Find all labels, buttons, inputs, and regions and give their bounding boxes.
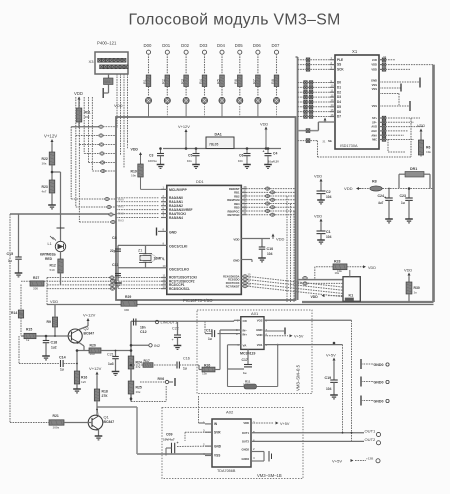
svg-text:D02: D02 [181,43,189,48]
svg-text:P400–121: P400–121 [97,41,117,46]
svg-text:VO2: VO2 [257,319,263,323]
svg-text:D04: D04 [217,43,225,48]
svg-text:IN2: IN2 [154,344,160,348]
svg-text:+: + [263,150,265,154]
svg-text:C23: C23 [400,194,407,198]
svg-text:R8: R8 [372,180,377,184]
svg-text:14: 14 [163,285,167,289]
svg-text:GND4: GND4 [242,457,250,461]
svg-text:DA1: DA1 [215,133,222,137]
svg-text:R12: R12 [50,264,56,268]
svg-text:R7: R7 [252,79,256,84]
svg-text:X3: X3 [89,59,95,64]
svg-text:11: 11 [163,274,166,278]
svg-text:100к: 100к [53,426,60,430]
svg-text:104: 104 [267,252,273,256]
svg-text:47к: 47к [136,365,141,369]
svg-text:13: 13 [163,281,167,285]
svg-text:22p: 22p [110,249,116,253]
svg-text:24: 24 [244,200,248,204]
svg-text:AGC: AGC [371,129,377,133]
svg-text:VDD: VDD [371,63,377,67]
svg-text:10u/6,3V: 10u/6,3V [268,160,279,164]
svg-text:LVD: LVD [372,58,377,62]
svg-text:K1: K1 [349,294,354,298]
svg-text:R16: R16 [81,376,87,380]
svg-text:VDD: VDD [233,238,239,242]
svg-text:RC3/SCK/SCL: RC3/SCK/SCL [169,287,190,291]
svg-text:RA1: RA1 [118,205,124,209]
svg-text:D01: D01 [162,43,170,48]
svg-text:MIC: MIC [372,138,377,142]
svg-text:VSS: VSS [372,87,378,91]
svg-text:R27: R27 [33,276,39,280]
svg-text:1к5: 1к5 [81,380,86,384]
svg-text:R18: R18 [102,390,108,394]
svg-text:100: 100 [90,352,95,356]
svg-text:TDA7056B: TDA7056B [217,469,236,473]
svg-text:C16: C16 [183,357,190,361]
svg-text:D1: D1 [337,85,341,89]
svg-text:21: 21 [244,211,248,215]
svg-text:C17: C17 [242,358,248,362]
svg-text:D4: D4 [337,100,341,104]
svg-text:C1: C1 [326,230,331,234]
svg-text:IN+: IN+ [243,333,248,337]
svg-text:D00: D00 [144,43,152,48]
svg-text:R8: R8 [271,79,275,84]
svg-text:R9: R9 [47,320,51,324]
svg-text:D06: D06 [253,43,261,48]
svg-text:10к: 10к [426,150,431,154]
svg-text:VDD: VDD [404,269,412,273]
svg-text:1u: 1u [401,201,405,205]
svg-text:32: 32 [383,55,387,59]
svg-text:D07: D07 [272,43,280,48]
svg-text:104: 104 [326,387,332,391]
svg-text:V+5V: V+5V [332,459,342,464]
svg-text:+12В: +12В [366,457,374,461]
svg-text:SE: SE [328,139,332,143]
svg-text:SVR: SVR [214,430,221,434]
svg-text:C09: C09 [166,433,173,437]
svg-text:+: + [177,441,179,445]
svg-text:R14: R14 [11,311,17,315]
svg-text:R25: R25 [136,386,142,390]
svg-text:A01: A01 [251,311,259,316]
svg-text:GND: GND [371,79,377,83]
svg-text:10к: 10к [136,390,141,394]
svg-text:VSS: VSS [372,104,378,108]
svg-text:R1: R1 [143,79,147,84]
svg-text:V+5V: V+5V [326,353,336,358]
svg-text:V+12V: V+12V [89,366,102,371]
svg-text:VDD: VDD [371,68,377,72]
svg-text:23: 23 [244,203,248,207]
svg-text:C8: C8 [112,236,117,240]
svg-text:VDD: VDD [243,421,249,425]
svg-text:RB2: RB2 [234,194,240,198]
svg-text:Q1: Q1 [104,415,109,420]
svg-text:16: 16 [248,276,252,280]
svg-text:26: 26 [244,192,248,196]
svg-text:V+12V: V+12V [178,124,190,129]
svg-text:DD1: DD1 [196,180,204,184]
svg-text:28: 28 [244,185,248,189]
svg-text:OSC1/CLKI: OSC1/CLKI [169,245,187,249]
svg-text:RC7/RX/DT: RC7/RX/DT [226,284,240,288]
svg-text:D7: D7 [337,115,341,119]
svg-text:VDD: VDD [50,300,58,304]
svg-text:VDD: VDD [314,175,322,179]
svg-text:56R: 56R [243,383,249,387]
svg-text:VDD: VDD [417,124,425,128]
svg-text:C12: C12 [140,330,147,334]
svg-text:V+5V: V+5V [294,335,304,339]
svg-text:SB1: SB1 [104,80,111,84]
svg-text:25: 25 [244,196,248,200]
svg-text:SCK: SCK [337,67,344,71]
svg-text:RV6: RV6 [158,377,165,381]
svg-text:VDD: VDD [114,103,123,108]
svg-text:GND: GND [233,259,239,263]
svg-text:RB1: RB1 [234,191,240,195]
svg-text:GND0: GND0 [374,380,384,384]
svg-text:18n: 18n [140,326,146,330]
svg-text:DR1: DR1 [410,167,417,171]
svg-text:R21: R21 [53,414,59,418]
svg-text:BC847: BC847 [84,331,95,335]
svg-text:SS: SS [337,63,341,67]
svg-text:D3: D3 [337,95,341,99]
svg-text:R30: R30 [414,286,420,290]
svg-text:RA3: RA3 [118,219,124,223]
svg-text:C19: C19 [325,376,332,380]
svg-text:OUT2: OUT2 [365,437,377,442]
svg-text:BC847: BC847 [104,420,115,424]
svg-text:1к: 1к [26,338,30,342]
svg-text:VDD: VDD [276,237,284,242]
svg-text:1u: 1u [183,367,187,371]
svg-text:C10: C10 [267,247,274,251]
svg-text:1u2: 1u2 [51,346,57,350]
svg-text:RB7/PGD: RB7/PGD [228,213,240,217]
svg-text:R15: R15 [26,328,32,332]
svg-text:330: 330 [33,287,38,291]
svg-text:104: 104 [238,159,243,163]
svg-text:D5: D5 [337,105,341,109]
svg-text:GND0: GND0 [374,363,384,367]
svg-text:VDD: VDD [344,186,353,191]
svg-text:GND0: GND0 [374,399,384,403]
svg-text:10: 10 [163,264,167,268]
svg-text:R17: R17 [144,359,150,363]
svg-text:R2: R2 [162,79,166,84]
svg-text:SP+: SP+ [372,116,377,120]
svg-text:12: 12 [163,277,167,281]
svg-text:ISD1730A: ISD1730A [340,144,358,148]
svg-text:VDD: VDD [131,148,139,152]
svg-text:R29: R29 [125,295,131,299]
svg-text:4к7: 4к7 [42,190,47,194]
svg-text:VSS: VSS [214,454,220,458]
svg-text:10n: 10n [187,159,192,163]
svg-text:RB5: RB5 [234,206,240,210]
svg-text:C21: C21 [107,353,114,357]
svg-text:OUT2: OUT2 [242,440,250,444]
svg-text:R24: R24 [136,361,142,365]
svg-text:330: 330 [124,308,129,312]
svg-text:78L05: 78L05 [209,143,219,147]
svg-text:VDD: VDD [256,333,262,337]
svg-text:RB4: RB4 [234,202,240,206]
svg-text:A02: A02 [226,410,234,415]
svg-text:GND2: GND2 [242,448,250,452]
svg-text:VDD: VDD [74,91,83,96]
svg-text:VM3–SM–1B: VM3–SM–1B [257,473,282,478]
svg-text:Z1: Z1 [138,249,142,253]
svg-text:VO1: VO1 [257,343,263,347]
svg-text:D05: D05 [235,43,243,48]
svg-text:VSS: VSS [372,83,378,87]
svg-text:RA2: RA2 [118,212,124,216]
svg-text:GND: GND [214,444,222,448]
svg-text:D0: D0 [337,81,341,85]
svg-text:27: 27 [244,189,248,193]
svg-text:1к: 1к [414,291,418,295]
svg-text:C4: C4 [273,152,277,156]
svg-text:V+12V: V+12V [44,134,57,139]
svg-text:RB3/PGM: RB3/PGM [227,198,240,202]
svg-text:R4: R4 [199,78,203,84]
svg-text:VM3–SM–0.5: VM3–SM–0.5 [296,364,301,391]
svg-text:1u: 1u [60,368,64,372]
svg-text:22: 22 [244,207,248,211]
svg-text:ANA: ANA [371,133,377,137]
svg-text:RB0/INT: RB0/INT [229,187,240,191]
svg-text:OSC2/CLKO: OSC2/CLKO [169,268,189,272]
svg-text:R6: R6 [426,146,430,150]
svg-text:R6: R6 [234,79,238,84]
svg-text:D03: D03 [200,43,208,48]
svg-text:16V/1u: 16V/1u [148,159,157,163]
svg-text:510: 510 [50,268,55,272]
svg-text:LINOUT1: LINOUT1 [161,320,178,325]
svg-text:31: 31 [383,65,387,69]
svg-text:Голосовой модуль VM3–SM: Голосовой модуль VM3–SM [129,12,341,29]
svg-text:GND: GND [169,231,177,235]
svg-text:OUT1: OUT1 [242,431,250,435]
svg-text:RED: RED [45,257,53,261]
svg-text:VDD: VDD [314,215,322,219]
svg-text:GND: GND [256,328,262,332]
svg-text:R23: R23 [42,185,48,189]
svg-text:16МГц: 16МГц [154,257,166,261]
svg-text:V+5V: V+5V [280,422,290,426]
svg-text:VDD: VDD [368,266,376,270]
svg-text:RA5/AN4: RA5/AN4 [169,216,183,220]
svg-text:10V/4u7: 10V/4u7 [163,438,175,442]
svg-text:MCLR/VPP: MCLR/VPP [169,188,187,192]
svg-text:10к: 10к [131,174,136,178]
svg-text:C6: C6 [239,154,243,158]
svg-text:10к: 10к [337,269,342,273]
svg-text:C11: C11 [112,263,118,267]
svg-text:C13: C13 [206,329,213,333]
svg-text:R22: R22 [42,157,48,161]
svg-text:D2: D2 [337,90,341,94]
svg-text:C3: C3 [149,154,153,158]
svg-text:PIC16F73–I/SO: PIC16F73–I/SO [183,298,213,303]
svg-text:18: 18 [248,282,252,286]
svg-text:C5: C5 [188,154,192,158]
svg-text:104: 104 [326,235,332,239]
svg-text:1u3: 1u3 [108,362,114,366]
svg-text:4u7: 4u7 [378,201,384,205]
svg-text:27К: 27К [102,394,109,398]
svg-text:R5: R5 [216,79,220,84]
svg-text:AUD: AUD [371,125,377,129]
svg-text:1u: 1u [243,371,247,375]
svg-text:RC5/SDO: RC5/SDO [228,278,240,282]
svg-text:R3: R3 [181,79,185,84]
svg-text:R28: R28 [334,260,341,264]
svg-text:10к: 10к [85,115,90,119]
svg-text:C14: C14 [59,356,66,360]
svg-text:10к: 10к [42,162,47,166]
svg-text:L1: L1 [48,242,52,246]
svg-text:OUT1: OUT1 [365,429,377,434]
svg-text:V+12V: V+12V [83,313,96,318]
svg-text:C2: C2 [326,190,331,194]
svg-text:PLE: PLE [337,58,343,62]
svg-text:C18: C18 [51,341,58,345]
svg-text:R11: R11 [85,111,91,115]
svg-text:12к: 12к [202,372,207,376]
svg-text:104: 104 [326,195,332,199]
svg-text:VDD: VDD [311,295,319,299]
svg-text:SP–: SP– [372,120,377,124]
svg-text:X1: X1 [352,49,358,54]
svg-text:RA0: RA0 [118,198,124,202]
svg-text:RB6/PGC: RB6/PGC [228,209,240,213]
svg-text:1u: 1u [208,337,212,341]
svg-text:R26: R26 [204,364,210,368]
svg-text:+: + [384,196,386,200]
svg-text:D6: D6 [337,110,341,114]
svg-text:R20: R20 [90,344,96,348]
svg-text:VDD: VDD [260,122,268,127]
